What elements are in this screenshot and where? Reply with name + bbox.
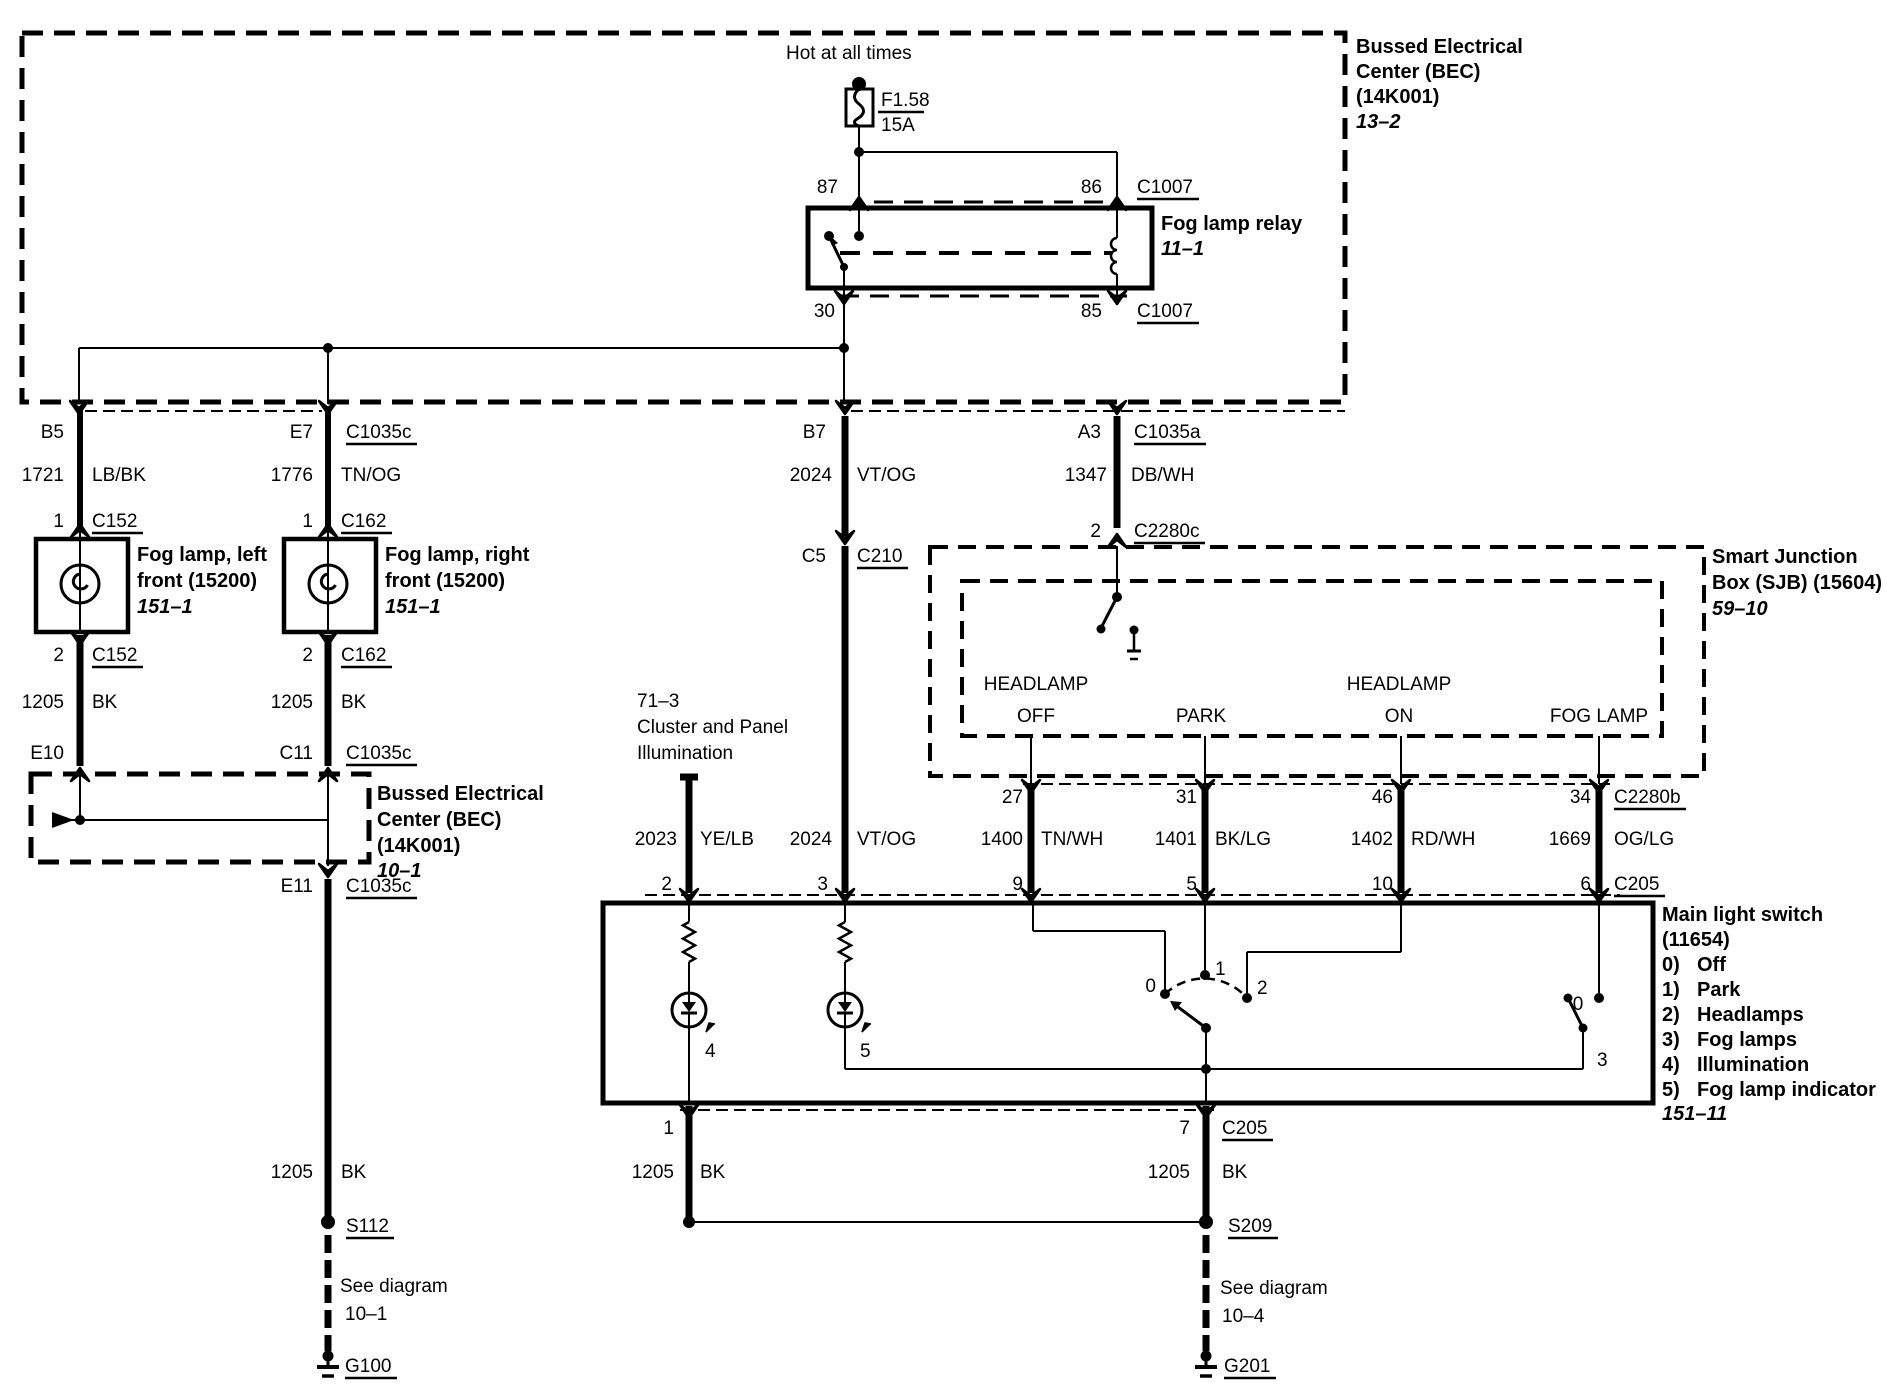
svg-text:See diagram: See diagram: [1220, 1278, 1328, 1299]
svg-text:1401: 1401: [1155, 829, 1197, 850]
svg-text:PARK: PARK: [1176, 706, 1227, 727]
svg-text:TN/WH: TN/WH: [1041, 829, 1103, 850]
svg-text:Cluster and Panel: Cluster and Panel: [637, 717, 788, 738]
svg-text:Fog lamps: Fog lamps: [1697, 1029, 1797, 1051]
svg-text:S209: S209: [1228, 1216, 1272, 1237]
svg-text:RD/WH: RD/WH: [1411, 829, 1475, 850]
svg-text:(14K001): (14K001): [377, 835, 460, 857]
svg-text:31: 31: [1176, 787, 1197, 808]
svg-text:Fog lamp indicator: Fog lamp indicator: [1697, 1079, 1876, 1101]
svg-text:27: 27: [1002, 787, 1023, 808]
svg-text:5: 5: [1186, 874, 1197, 895]
svg-text:ON: ON: [1385, 706, 1414, 727]
svg-text:1205: 1205: [632, 1162, 674, 1183]
svg-text:C1035a: C1035a: [1134, 422, 1201, 443]
svg-text:Bussed Electrical: Bussed Electrical: [1356, 36, 1523, 58]
svg-text:85: 85: [1081, 301, 1102, 322]
svg-text:Smart Junction: Smart Junction: [1712, 546, 1858, 568]
svg-text:C5: C5: [802, 546, 826, 567]
svg-text:1400: 1400: [981, 829, 1023, 850]
svg-text:0: 0: [1145, 976, 1156, 997]
svg-text:10–4: 10–4: [1222, 1306, 1265, 1327]
svg-text:86: 86: [1081, 177, 1102, 198]
svg-text:5): 5): [1662, 1079, 1680, 1101]
svg-text:2: 2: [661, 874, 672, 895]
svg-text:2): 2): [1662, 1004, 1680, 1026]
svg-text:front (15200): front (15200): [385, 570, 505, 592]
svg-text:59–10: 59–10: [1712, 598, 1768, 620]
svg-text:1669: 1669: [1549, 829, 1591, 850]
svg-text:C205: C205: [1222, 1118, 1267, 1139]
svg-text:71–3: 71–3: [637, 691, 679, 712]
svg-text:C210: C210: [857, 546, 902, 567]
svg-text:Illumination: Illumination: [1697, 1054, 1809, 1076]
svg-text:1: 1: [302, 511, 313, 532]
svg-text:OFF: OFF: [1017, 706, 1055, 727]
svg-text:C1035c: C1035c: [346, 422, 412, 443]
svg-text:E10: E10: [30, 743, 64, 764]
svg-text:C162: C162: [341, 645, 386, 666]
svg-text:C1035c: C1035c: [346, 876, 412, 897]
svg-text:1): 1): [1662, 979, 1680, 1001]
svg-text:Fog lamp relay: Fog lamp relay: [1161, 213, 1303, 235]
svg-text:2024: 2024: [790, 829, 833, 850]
svg-text:1776: 1776: [271, 465, 313, 486]
svg-text:1347: 1347: [1065, 465, 1107, 486]
svg-text:10: 10: [1372, 874, 1393, 895]
svg-text:3: 3: [817, 874, 828, 895]
svg-text:S112: S112: [346, 1216, 389, 1237]
svg-text:G100: G100: [345, 1356, 391, 1377]
svg-text:Center (BEC): Center (BEC): [1356, 61, 1480, 83]
svg-text:TN/OG: TN/OG: [341, 465, 401, 486]
svg-text:4: 4: [705, 1041, 716, 1062]
svg-text:B7: B7: [803, 422, 826, 443]
svg-text:87: 87: [817, 177, 838, 198]
svg-text:OG/LG: OG/LG: [1614, 829, 1674, 850]
svg-text:6: 6: [1580, 874, 1591, 895]
svg-text:HEADLAMP: HEADLAMP: [1347, 674, 1452, 695]
svg-text:C1007: C1007: [1137, 301, 1193, 322]
svg-text:C152: C152: [92, 511, 137, 532]
svg-text:2: 2: [1090, 521, 1101, 542]
svg-text:46: 46: [1372, 787, 1393, 808]
svg-text:BK: BK: [341, 692, 367, 713]
svg-text:FOG LAMP: FOG LAMP: [1550, 706, 1648, 727]
svg-text:BK: BK: [700, 1162, 726, 1183]
svg-text:1402: 1402: [1351, 829, 1393, 850]
svg-text:Center (BEC): Center (BEC): [377, 809, 501, 831]
svg-text:C205: C205: [1614, 874, 1659, 895]
svg-text:Main light switch: Main light switch: [1662, 904, 1823, 926]
svg-text:E7: E7: [290, 422, 313, 443]
svg-text:2: 2: [302, 645, 313, 666]
svg-text:E11: E11: [281, 876, 313, 897]
svg-text:1: 1: [663, 1118, 674, 1139]
svg-text:1721: 1721: [22, 465, 64, 486]
svg-text:9: 9: [1012, 874, 1023, 895]
svg-text:151–11: 151–11: [1662, 1103, 1727, 1125]
svg-text:2: 2: [53, 645, 64, 666]
svg-text:151–1: 151–1: [137, 596, 193, 618]
svg-text:BK: BK: [341, 1162, 367, 1183]
svg-text:(14K001): (14K001): [1356, 86, 1439, 108]
svg-text:C2280c: C2280c: [1134, 521, 1200, 542]
svg-text:YE/LB: YE/LB: [700, 829, 754, 850]
svg-text:0: 0: [1573, 994, 1584, 1015]
svg-text:VT/OG: VT/OG: [857, 829, 916, 850]
svg-text:C162: C162: [341, 511, 386, 532]
svg-text:13–2: 13–2: [1356, 111, 1401, 133]
svg-text:1205: 1205: [1148, 1162, 1190, 1183]
svg-text:Hot at all times: Hot at all times: [786, 43, 912, 64]
svg-text:0): 0): [1662, 954, 1680, 976]
svg-text:G201: G201: [1224, 1356, 1270, 1377]
svg-text:Fog lamp, right: Fog lamp, right: [385, 544, 530, 566]
svg-text:1: 1: [1215, 959, 1226, 980]
svg-text:2: 2: [1257, 978, 1268, 999]
svg-text:front (15200): front (15200): [137, 570, 257, 592]
svg-text:Bussed Electrical: Bussed Electrical: [377, 783, 544, 805]
svg-text:1205: 1205: [22, 692, 64, 713]
svg-text:Box (SJB) (15604): Box (SJB) (15604): [1712, 572, 1882, 594]
svg-text:1205: 1205: [271, 1162, 313, 1183]
svg-text:1205: 1205: [271, 692, 313, 713]
svg-text:HEADLAMP: HEADLAMP: [984, 674, 1089, 695]
svg-text:5: 5: [860, 1041, 871, 1062]
svg-text:See diagram: See diagram: [340, 1276, 448, 1297]
svg-text:Fog lamp, left: Fog lamp, left: [137, 544, 267, 566]
svg-text:C152: C152: [92, 645, 137, 666]
svg-text:11–1: 11–1: [1161, 238, 1204, 260]
svg-text:C1035c: C1035c: [346, 743, 412, 764]
svg-text:10–1: 10–1: [345, 1304, 387, 1325]
svg-text:LB/BK: LB/BK: [92, 465, 146, 486]
svg-text:DB/WH: DB/WH: [1131, 465, 1194, 486]
svg-text:15A: 15A: [881, 115, 915, 136]
svg-text:F1.58: F1.58: [881, 90, 930, 111]
svg-text:A3: A3: [1078, 422, 1101, 443]
svg-text:VT/OG: VT/OG: [857, 465, 916, 486]
svg-text:Illumination: Illumination: [637, 743, 733, 764]
svg-text:BK: BK: [1222, 1162, 1248, 1183]
svg-text:3: 3: [1597, 1050, 1608, 1071]
svg-text:C1007: C1007: [1137, 177, 1193, 198]
svg-text:C2280b: C2280b: [1614, 787, 1681, 808]
svg-text:7: 7: [1179, 1118, 1190, 1139]
svg-text:1: 1: [53, 511, 64, 532]
svg-text:2024: 2024: [790, 465, 833, 486]
svg-text:Park: Park: [1697, 979, 1741, 1001]
svg-text:151–1: 151–1: [385, 596, 441, 618]
svg-text:B5: B5: [41, 422, 64, 443]
svg-text:4): 4): [1662, 1054, 1680, 1076]
svg-text:30: 30: [814, 301, 835, 322]
svg-text:Headlamps: Headlamps: [1697, 1004, 1804, 1026]
svg-text:Off: Off: [1697, 954, 1726, 976]
svg-text:2023: 2023: [635, 829, 677, 850]
svg-text:34: 34: [1570, 787, 1592, 808]
svg-text:BK/LG: BK/LG: [1215, 829, 1271, 850]
svg-text:(11654): (11654): [1662, 929, 1730, 951]
svg-text:BK: BK: [92, 692, 118, 713]
svg-text:3): 3): [1662, 1029, 1680, 1051]
svg-text:C11: C11: [280, 743, 313, 764]
